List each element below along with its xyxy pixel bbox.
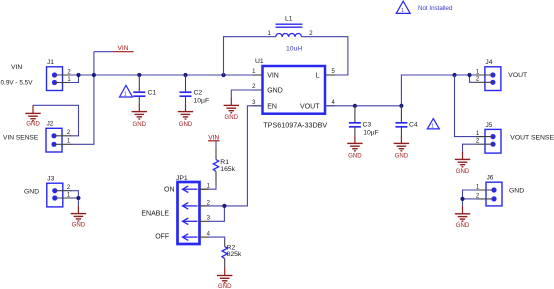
svg-text:GND: GND bbox=[225, 114, 239, 121]
svg-text:VIN SENSE: VIN SENSE bbox=[3, 135, 39, 142]
wire JP1 pin4 to R2 bbox=[208, 237, 225, 240]
svg-text:GND: GND bbox=[456, 222, 470, 229]
svg-text:ENABLE: ENABLE bbox=[141, 211, 169, 218]
svg-text:TPS61097A-33DBV: TPS61097A-33DBV bbox=[263, 121, 327, 130]
ground (C1) bbox=[132, 104, 147, 128]
jumper header JP1 bbox=[176, 175, 211, 244]
ground (C4) bbox=[394, 135, 409, 159]
wire VOUT to J5 pin1 bbox=[455, 75, 486, 137]
svg-text:J5: J5 bbox=[486, 122, 493, 129]
ground (C2) bbox=[178, 104, 193, 128]
ground (above J2) bbox=[25, 105, 40, 127]
svg-text:GND: GND bbox=[72, 221, 86, 228]
ground (R2) bbox=[217, 268, 232, 289]
node junction C3 bbox=[353, 104, 357, 108]
connector J1 bbox=[47, 59, 72, 90]
svg-text:VIN: VIN bbox=[267, 73, 279, 80]
svg-text:C1: C1 bbox=[148, 90, 157, 97]
svg-text:GND: GND bbox=[456, 168, 470, 175]
legend: not-installed triangle bbox=[396, 1, 410, 14]
svg-text:J2: J2 bbox=[47, 121, 54, 128]
node junction J5 branch bbox=[452, 73, 456, 77]
label VIN SENSE bbox=[3, 135, 39, 142]
svg-text:ON: ON bbox=[164, 186, 175, 193]
svg-text:GND: GND bbox=[26, 121, 40, 128]
svg-text:GND: GND bbox=[267, 88, 283, 95]
svg-text:J6: J6 bbox=[487, 175, 494, 182]
svg-text:GND: GND bbox=[133, 121, 147, 128]
label ON bbox=[164, 186, 175, 193]
svg-text:GND: GND bbox=[179, 121, 193, 128]
svg-text:J3: J3 bbox=[47, 176, 54, 183]
node junction C4 bbox=[399, 104, 403, 108]
svg-text:C2: C2 bbox=[194, 90, 203, 97]
wire R1 to JP1 pin1 bbox=[200, 186, 217, 190]
node junction J3 bbox=[76, 196, 80, 200]
svg-text:C4: C4 bbox=[409, 122, 418, 129]
wire VIN rail up to L1 bbox=[224, 37, 276, 75]
node junction J6 bbox=[460, 197, 464, 201]
label VIN (input) bbox=[11, 64, 22, 71]
svg-text:VIN: VIN bbox=[208, 134, 219, 141]
ground (J3) bbox=[71, 206, 86, 229]
wire JP1 pin3 to pin2 net bbox=[208, 206, 224, 221]
svg-text:GND: GND bbox=[218, 283, 232, 289]
capacitor C3 10uF bbox=[349, 106, 379, 137]
not-installed triangle (C1) bbox=[120, 85, 133, 97]
svg-text:VOUT: VOUT bbox=[508, 72, 527, 79]
wire J5 pin2 to ground bbox=[463, 144, 477, 151]
wire J6 pin1/pin2 tie to ground bbox=[463, 190, 478, 206]
svg-text:1: 1 bbox=[124, 92, 127, 98]
wire VIN label riser down to J2 pin1 bbox=[70, 52, 94, 145]
connector J3 bbox=[47, 176, 72, 207]
ground (J5) bbox=[455, 152, 470, 176]
svg-text:J4: J4 bbox=[485, 59, 492, 66]
svg-text:L: L bbox=[316, 73, 320, 80]
svg-text:10µF: 10µF bbox=[363, 129, 379, 136]
svg-text:C3: C3 bbox=[363, 122, 372, 129]
wire GND to J2 pin2 bbox=[33, 105, 79, 136]
svg-text:U1: U1 bbox=[255, 58, 264, 65]
ground (C3) bbox=[347, 135, 362, 159]
label OFF bbox=[155, 234, 169, 241]
capacitor C1 bbox=[133, 75, 156, 104]
svg-text:165k: 165k bbox=[220, 166, 235, 173]
svg-text:Not Installed: Not Installed bbox=[418, 5, 453, 12]
label VOUT SENSE bbox=[510, 134, 554, 141]
node junction L1 branch bbox=[221, 73, 225, 77]
node junction J1/VIN rail bbox=[76, 73, 80, 77]
svg-text:VOUT SENSE: VOUT SENSE bbox=[510, 134, 554, 141]
node junction C1 bbox=[137, 73, 141, 77]
node junction C2 bbox=[183, 73, 187, 77]
svg-text:GND: GND bbox=[395, 153, 409, 160]
label ENABLE bbox=[141, 211, 169, 218]
ground (J6) bbox=[455, 206, 470, 229]
connector J5 bbox=[476, 122, 501, 153]
svg-text:GND: GND bbox=[348, 153, 362, 160]
svg-text:L1: L1 bbox=[285, 16, 293, 23]
legend text: Not Installed bbox=[418, 5, 453, 12]
ground (U1 pin 2) bbox=[231, 90, 262, 97]
svg-text:VIN: VIN bbox=[118, 45, 129, 52]
svg-text:VOUT: VOUT bbox=[300, 103, 320, 110]
wire VOUT rail bbox=[325, 75, 485, 106]
svg-text:GND: GND bbox=[24, 189, 39, 196]
net label VIN (R1) bbox=[208, 134, 219, 146]
svg-text:1: 1 bbox=[431, 124, 434, 130]
svg-text:GND: GND bbox=[509, 188, 524, 195]
svg-text:J1: J1 bbox=[47, 59, 54, 66]
resistor R1 165k bbox=[213, 146, 235, 185]
node junction J4 pin2 bbox=[467, 73, 471, 77]
connector J6 bbox=[476, 175, 502, 206]
svg-text:10µF: 10µF bbox=[194, 98, 210, 105]
node junction EN net bbox=[222, 204, 226, 208]
svg-text:OFF: OFF bbox=[155, 234, 169, 241]
label 0.9V - 5.5V bbox=[1, 79, 34, 86]
inductor L1 10uH bbox=[268, 16, 314, 53]
wire VIN rail bbox=[70, 74, 263, 76]
connector J4 bbox=[476, 59, 501, 90]
wire EN riser U1 pin3 to JP1 bbox=[200, 106, 263, 206]
svg-text:EN: EN bbox=[267, 103, 277, 110]
node junction VIN rail / sense riser bbox=[92, 73, 96, 77]
svg-text:JP1: JP1 bbox=[176, 175, 188, 182]
svg-text:0.9V - 5.5V: 0.9V - 5.5V bbox=[1, 79, 34, 86]
IC U1 TPS61097A-33DBV bbox=[252, 58, 335, 130]
net label VIN (top left) bbox=[94, 45, 134, 52]
label GND (J3) bbox=[24, 189, 39, 196]
capacitor C2 10uF bbox=[180, 75, 210, 105]
svg-text:10uH: 10uH bbox=[286, 45, 302, 52]
wire J1 pin1 up to VIN rail bbox=[70, 75, 79, 83]
resistor R2 825k bbox=[222, 240, 242, 268]
wire J4 pin2 tie bbox=[470, 75, 477, 82]
wire L1 to U1 pin 5 bbox=[301, 37, 348, 75]
svg-text:825k: 825k bbox=[227, 251, 242, 258]
svg-text:VIN: VIN bbox=[11, 64, 22, 71]
connector J2 bbox=[46, 121, 71, 152]
wire J3 pin2 to pin1 tie bbox=[70, 191, 78, 206]
label GND (J6) bbox=[509, 188, 524, 195]
capacitor C4 bbox=[395, 106, 418, 136]
label VOUT bbox=[508, 72, 527, 79]
not-installed triangle (C4) bbox=[427, 119, 439, 130]
svg-text:1: 1 bbox=[401, 8, 404, 14]
